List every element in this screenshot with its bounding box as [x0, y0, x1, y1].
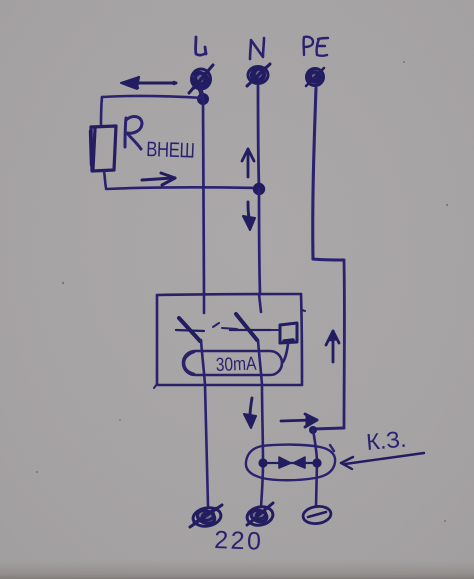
wire N junction to box	[259, 189, 260, 294]
test button tail	[283, 344, 288, 362]
terminal bottom PE	[302, 505, 332, 526]
svg-text:К.З.: К.З.	[365, 426, 407, 455]
svg-text:220: 220	[214, 526, 264, 556]
label L	[196, 37, 206, 55]
wire PE to bottom terminal	[316, 463, 317, 506]
paper specks	[36, 61, 448, 522]
terminal bottom L	[190, 505, 222, 528]
wire PE jog right	[313, 259, 344, 260]
wire PE vertical top	[313, 88, 316, 259]
wire N inside box	[259, 294, 261, 312]
arrow up beside PE	[326, 331, 339, 362]
arrow current right (mid-left)	[142, 173, 175, 185]
arrow up on N	[242, 149, 254, 177]
wire PE down to K.Z. dot	[313, 430, 317, 463]
node junction on L	[197, 93, 209, 105]
label PE	[304, 37, 328, 56]
switch pole N	[230, 314, 271, 340]
terminal N (top)	[247, 64, 270, 86]
node corner PE	[309, 426, 317, 434]
wire resistor bottom	[104, 171, 106, 188]
wire N through oval to box bottom	[258, 340, 262, 385]
wire L through oval to box bottom	[201, 340, 205, 385]
wire bottom horizontal to N junction	[106, 187, 258, 189]
wire L below box to terminal	[205, 385, 208, 506]
node dot right (on PE)	[312, 458, 321, 467]
arrow K.Z. to oval	[341, 453, 424, 469]
terminal PE (top)	[306, 68, 324, 86]
wire L terminal to junction	[201, 91, 203, 98]
node junction on N	[253, 183, 265, 195]
arrow down on N	[243, 202, 255, 230]
arrow current left (top)	[121, 77, 176, 89]
terminal L (top)	[189, 65, 213, 95]
wire left vertical down to resistor	[101, 97, 102, 126]
resistor R внеш	[90, 126, 116, 171]
wire L junction to box	[203, 99, 204, 294]
wire N oval dot to bottom terminal	[261, 463, 263, 507]
wire N below box to oval dot	[262, 385, 263, 463]
node dot left (on N)	[258, 458, 267, 467]
arrow down below box	[244, 398, 256, 428]
wire top horizontal junction to left	[102, 96, 203, 98]
terminal bottom N	[245, 503, 274, 528]
wire L inside box	[203, 294, 206, 313]
linkage dashes	[213, 323, 278, 330]
short-circuit bowtie arrows	[267, 457, 313, 468]
wire PE jog left	[313, 428, 344, 429]
wire PE vertical mid	[343, 261, 346, 427]
sensor oval 30mA	[183, 351, 282, 375]
test button T	[280, 323, 297, 343]
svg-text:ВНЕШ: ВНЕШ	[146, 138, 195, 163]
label N	[250, 38, 264, 59]
wire N vertical top	[258, 86, 259, 188]
switch pole L	[176, 318, 204, 341]
RCD box U1	[154, 294, 305, 388]
svg-text:30mA: 30mA	[215, 352, 257, 375]
label R	[125, 117, 142, 149]
K.Z. oval	[246, 445, 335, 481]
arrow right to PE	[281, 414, 317, 427]
